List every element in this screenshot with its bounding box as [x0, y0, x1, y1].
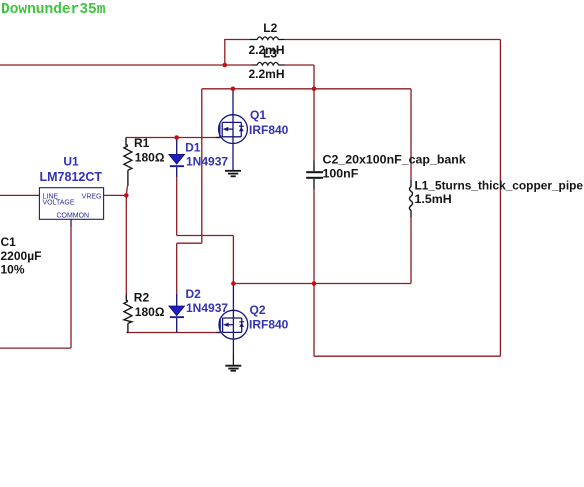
wire L2 junction up	[224, 40, 226, 66]
U1 pin COMMON stub	[70, 219, 72, 226]
svg-text:L1_5turns_thick_copper_pipe: L1_5turns_thick_copper_pipe	[415, 178, 584, 192]
svg-text:100nF: 100nF	[323, 167, 359, 181]
mosfet Q1	[216, 89, 248, 171]
wire Q2 gate bus y=332.5	[127, 332, 221, 334]
voltage regulator U1 box	[39, 188, 103, 220]
wire L2 top lead left	[224, 39, 250, 41]
wire L3 right to corner down	[284, 65, 314, 89]
svg-text:2.2mH: 2.2mH	[249, 67, 285, 81]
svg-text:IRF840: IRF840	[249, 123, 289, 137]
wire L1 top vertical	[410, 89, 412, 180]
resistor R1	[124, 138, 132, 187]
svg-text:180Ω: 180Ω	[135, 305, 165, 319]
wire top bus y=88.8	[202, 88, 411, 90]
resistor R2	[124, 295, 132, 333]
wire main left horizontal to L2 junction	[0, 64, 225, 66]
wire C2 upper vertical	[313, 89, 315, 161]
ground under Q1	[225, 171, 241, 177]
wire right edge vertical	[499, 40, 501, 357]
wire bottom horizontal	[314, 355, 500, 357]
svg-text:2200µF: 2200µF	[1, 249, 42, 263]
inductor L1 coil	[409, 180, 412, 218]
svg-text:R1: R1	[134, 136, 150, 150]
wire C2 lower vertical	[313, 190, 315, 284]
wire D1 cathode to Q2 drain crossover	[177, 176, 234, 284]
svg-text:2.2mH: 2.2mH	[249, 43, 285, 57]
wire crossover Q1 drain to D2	[177, 89, 202, 295]
svg-text:VREG: VREG	[82, 193, 102, 200]
svg-text:R2: R2	[134, 290, 150, 304]
diode D1	[176, 138, 178, 155]
svg-text:1.5mH: 1.5mH	[415, 192, 452, 206]
capacitor C2	[313, 161, 315, 190]
wire U1 output to node	[104, 194, 127, 196]
wire U1 input	[0, 194, 39, 196]
wire Q1 gate bus y=137.5	[126, 137, 221, 139]
svg-text:Q2: Q2	[250, 303, 266, 317]
wire U1 common down and left	[0, 226, 71, 348]
svg-text:COMMON: COMMON	[56, 212, 89, 219]
ground under Q2	[225, 366, 241, 371]
svg-text:180Ω: 180Ω	[135, 151, 165, 165]
svg-text:C1: C1	[1, 235, 17, 249]
svg-text:Downunder35m: Downunder35m	[1, 2, 106, 18]
wire C2 bottom vertical	[313, 284, 315, 357]
wire L1 bottom vertical	[410, 218, 412, 284]
svg-text:1N4937: 1N4937	[186, 301, 228, 315]
wire node down to R2	[125, 195, 127, 294]
wire Q2 drain node horizontal	[233, 283, 411, 285]
inductor L2 coil	[250, 37, 284, 40]
svg-text:LM7812CT: LM7812CT	[40, 170, 103, 184]
svg-text:L2: L2	[263, 21, 277, 35]
svg-text:D2: D2	[186, 287, 202, 301]
svg-text:VOLTAGE: VOLTAGE	[43, 200, 75, 207]
inductor L3 coil	[252, 62, 285, 65]
junction node dots	[124, 63, 316, 286]
diode D2	[176, 294, 178, 306]
svg-text:10%: 10%	[1, 262, 25, 276]
wire L3 coil lead left red	[225, 64, 252, 66]
svg-text:Q1: Q1	[250, 108, 266, 122]
svg-text:1N4937: 1N4937	[186, 154, 228, 168]
svg-text:IRF840: IRF840	[249, 318, 289, 332]
mosfet Q2	[216, 284, 248, 354]
svg-text:C2_20x100nF_cap_bank: C2_20x100nF_cap_bank	[323, 153, 466, 167]
svg-text:D1: D1	[185, 141, 201, 155]
svg-text:U1: U1	[63, 155, 79, 169]
wire L2 top right to corner	[284, 39, 500, 41]
